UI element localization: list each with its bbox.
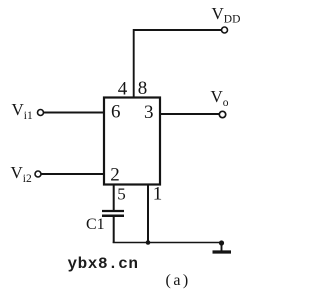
wire C1 to ground rail (113, 216, 115, 243)
svg-text:C1: C1 (86, 216, 105, 233)
op-amp U1 body (104, 98, 160, 185)
wire ground stem (221, 243, 223, 252)
wire pin 3 to Vo (160, 113, 219, 115)
terminal VDD (222, 27, 228, 33)
wire Vi1 to pin 6 (44, 112, 104, 114)
capacitor C1 (102, 211, 124, 216)
wire pin 5 to C1 (113, 185, 115, 212)
svg-text:(a): (a) (166, 272, 191, 289)
wire Vi2 to pin 2 (41, 173, 104, 175)
svg-text:ybx8.cn: ybx8.cn (68, 255, 139, 273)
wire VDD to pin 8 (134, 30, 222, 98)
terminal Vi1 (38, 110, 44, 116)
svg-text:8: 8 (138, 78, 148, 99)
ground rail wire (113, 242, 222, 244)
ground (213, 250, 232, 253)
junction pin 1 / rail (146, 240, 151, 245)
svg-text:1: 1 (153, 184, 163, 205)
svg-text:4: 4 (118, 79, 128, 100)
wire pin 1 to ground rail (147, 185, 149, 244)
terminal Vi2 (35, 171, 41, 177)
junction rail / ground (219, 240, 224, 245)
terminal Vo (219, 111, 225, 117)
svg-text:6: 6 (111, 102, 121, 123)
svg-text:2: 2 (110, 165, 120, 186)
svg-text:3: 3 (144, 102, 154, 123)
svg-text:5: 5 (117, 185, 126, 204)
